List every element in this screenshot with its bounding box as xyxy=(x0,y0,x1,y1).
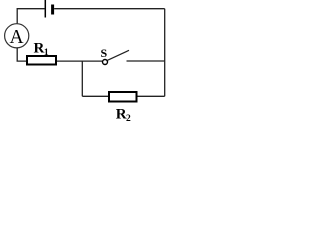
wire: junction corner to R2 xyxy=(82,95,109,97)
wire: ammeter top to battery positive plate xyxy=(17,9,44,24)
svg-text:R1: R1 xyxy=(34,40,49,58)
resistor R1 box xyxy=(27,56,56,65)
resistor R2 box xyxy=(109,92,137,102)
battery cell: short thick negative plate xyxy=(51,5,54,15)
svg-text:S: S xyxy=(100,46,107,60)
svg-text:A: A xyxy=(9,27,23,48)
ammeter U1 circle xyxy=(5,24,29,48)
battery cell: long thin positive plate xyxy=(44,0,46,18)
svg-text:R2: R2 xyxy=(116,106,131,122)
wire: right rail down xyxy=(164,9,166,97)
wire: R1 to switch contact xyxy=(57,60,102,62)
wire: junction node down to R2 branch xyxy=(81,61,83,97)
wire: switch right terminal to right rail xyxy=(127,60,165,62)
switch S contact circle xyxy=(103,60,108,65)
wire: R2 to right rail xyxy=(138,95,165,97)
wire: ammeter bottom to R1 xyxy=(17,48,26,62)
switch S blade xyxy=(107,50,129,60)
wire: battery to top-right corner xyxy=(54,8,165,10)
